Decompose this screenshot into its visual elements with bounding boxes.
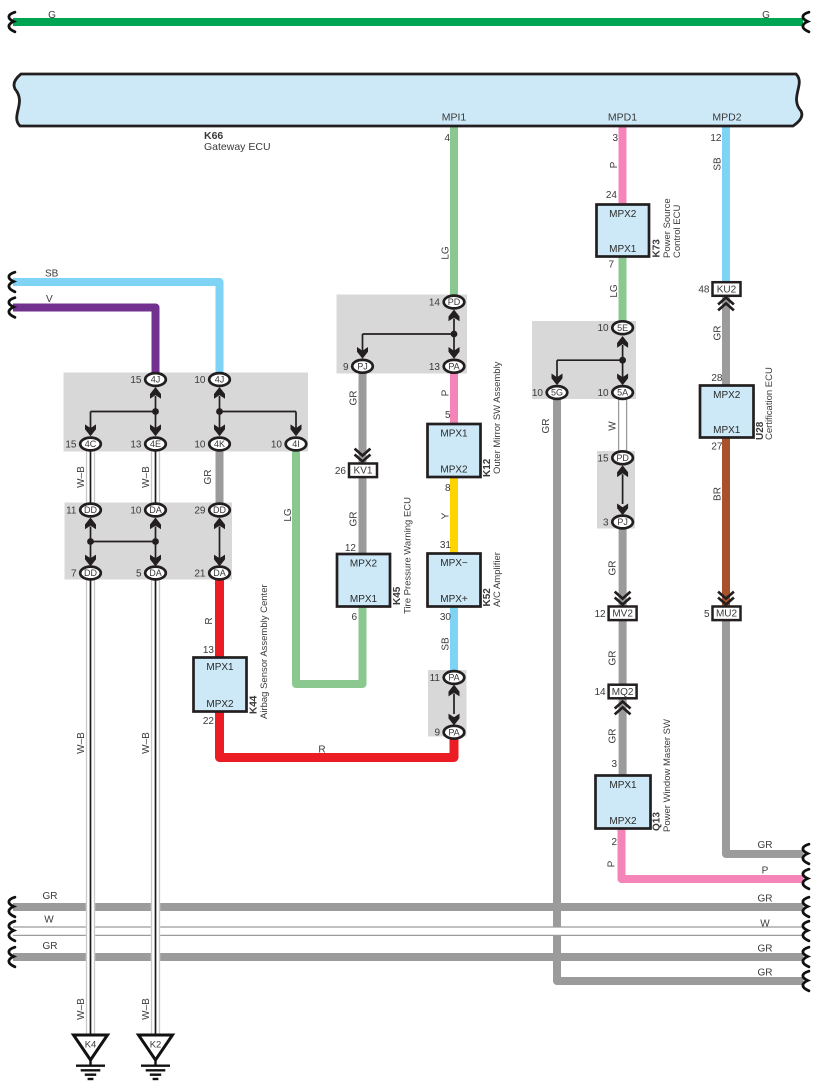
connector 13 PA <box>429 360 464 373</box>
connector 7 DD <box>71 567 101 580</box>
svg-text:K2: K2 <box>150 1040 162 1051</box>
svg-text:5: 5 <box>704 609 710 620</box>
arrows and branch 14 PD to PJ/PA <box>357 310 460 359</box>
wire SB left edge to 10 4J <box>13 282 220 374</box>
svg-text:10: 10 <box>597 323 609 334</box>
wire W-B 13 4E to 10 DA <box>151 450 160 504</box>
svg-text:5: 5 <box>136 569 142 580</box>
arrows 15 PD to 3 PJ <box>617 465 628 515</box>
svg-text:24: 24 <box>606 190 618 201</box>
break symbol GR lower right <box>803 947 809 967</box>
gateway ECU band K66 <box>14 74 802 126</box>
svg-text:12: 12 <box>345 543 357 554</box>
break symbol GR 5G right <box>803 971 809 991</box>
chevrons below MQ2 <box>615 702 631 715</box>
svg-text:KV1: KV1 <box>354 466 373 477</box>
svg-text:28: 28 <box>711 373 723 384</box>
svg-text:G: G <box>48 10 56 21</box>
connector 3 PJ <box>603 516 633 529</box>
connector 9 PA <box>434 726 464 739</box>
svg-text:P: P <box>762 866 769 877</box>
ECU K73 Power Source Control <box>597 205 650 257</box>
wire P 13 PA to K12 pin 5 <box>450 373 458 425</box>
svg-text:29: 29 <box>194 506 206 517</box>
svg-text:MPX1: MPX1 <box>609 780 637 791</box>
connector 14 MQ2 <box>594 685 636 699</box>
svg-text:15: 15 <box>65 440 77 451</box>
wire W-B 7 DD to ground K4 <box>86 579 95 1036</box>
svg-text:A/C Amplifier: A/C Amplifier <box>492 552 503 607</box>
svg-text:DA: DA <box>149 505 162 515</box>
svg-text:12: 12 <box>710 133 722 144</box>
connector 10 5A <box>597 386 632 399</box>
svg-text:W–B: W–B <box>141 732 152 754</box>
svg-text:MPD2: MPD2 <box>712 112 741 124</box>
svg-text:GR: GR <box>758 944 773 955</box>
chevrons into MU2 <box>718 592 734 605</box>
svg-text:DD: DD <box>84 568 97 578</box>
svg-text:GR: GR <box>608 729 619 744</box>
svg-text:3: 3 <box>612 133 618 144</box>
chevrons into KV1 <box>355 449 371 462</box>
break symbol GR lower left <box>9 947 15 967</box>
connector 5 MU2 <box>704 607 741 621</box>
svg-text:K4: K4 <box>85 1040 97 1051</box>
svg-text:MV2: MV2 <box>612 609 633 620</box>
svg-text:13: 13 <box>203 645 215 656</box>
svg-text:5A: 5A <box>617 388 628 398</box>
svg-text:9: 9 <box>434 728 440 739</box>
connector 9 PJ <box>343 360 373 373</box>
connector 15 4C <box>65 438 100 451</box>
svg-text:4: 4 <box>444 133 450 144</box>
wire GR MV2 to 14 MQ2 <box>619 620 627 686</box>
svg-text:31: 31 <box>440 540 452 551</box>
svg-text:MPD1: MPD1 <box>608 112 637 124</box>
svg-text:R: R <box>204 617 215 624</box>
wire SB MPD2 to 48 KU2 <box>722 124 730 283</box>
svg-text:V: V <box>46 294 53 305</box>
svg-text:SB: SB <box>713 157 724 171</box>
svg-text:MQ2: MQ2 <box>612 687 634 698</box>
svg-text:10: 10 <box>532 388 544 399</box>
wire W 10 5A to 15 PD <box>618 399 627 453</box>
svg-text:27: 27 <box>711 442 723 453</box>
connector 21 DA <box>194 567 229 580</box>
svg-text:K73: K73 <box>652 239 663 258</box>
junction panel PD/PJ pair <box>597 451 635 529</box>
ECU K52 A/C Amplifier <box>428 554 481 607</box>
svg-text:MPX−: MPX− <box>440 558 468 569</box>
wire GR 10 4K to 29 DD <box>216 450 224 504</box>
svg-text:GR: GR <box>349 391 360 406</box>
svg-text:DA: DA <box>213 568 226 578</box>
svg-text:MPX+: MPX+ <box>440 594 468 605</box>
connector 10 5E <box>597 321 632 334</box>
svg-text:W–B: W–B <box>76 998 87 1020</box>
svg-text:DD: DD <box>213 505 226 515</box>
svg-text:LG: LG <box>441 246 452 260</box>
svg-text:10: 10 <box>194 375 206 386</box>
svg-text:GR: GR <box>349 512 360 527</box>
connector 29 DD <box>194 504 229 517</box>
svg-text:12: 12 <box>594 609 606 620</box>
svg-text:4E: 4E <box>150 439 161 449</box>
junction panel 4J group <box>64 373 309 452</box>
break symbol W left <box>9 921 15 941</box>
wire GR MQ2 to Q13 pin 3 <box>619 698 627 776</box>
svg-text:G: G <box>762 10 770 21</box>
break symbol GR upper left <box>9 897 15 917</box>
arrows and branch 10 4J to 4K/4I <box>214 387 302 436</box>
wire LG 10 4I to K45 pin 6 <box>296 450 363 684</box>
svg-text:PD: PD <box>448 297 461 307</box>
svg-text:Outer Mirror SW Assembly: Outer Mirror SW Assembly <box>492 361 503 474</box>
svg-text:SB: SB <box>441 637 452 651</box>
svg-text:P: P <box>609 161 620 168</box>
connector 11 DD <box>66 504 101 517</box>
wire V left edge to 15 4J <box>13 308 156 375</box>
wire Y K12 pin 8 to K52 pin 31 <box>450 477 458 554</box>
connector 10 4J <box>194 373 229 386</box>
svg-text:Airbag Sensor Assembly Center: Airbag Sensor Assembly Center <box>259 584 270 719</box>
wire BR U28 pin 27 to 5 MU2 <box>722 437 730 607</box>
svg-text:MPX1: MPX1 <box>609 244 637 255</box>
connector 10 5G <box>532 386 567 399</box>
svg-text:GR: GR <box>713 326 724 341</box>
svg-text:Y: Y <box>441 512 452 519</box>
break symbol P right <box>803 869 809 889</box>
svg-text:7: 7 <box>608 260 614 271</box>
wire GR 9 PJ to 26 KV1 <box>359 373 367 464</box>
svg-text:GR: GR <box>541 419 552 434</box>
svg-text:GR: GR <box>758 894 773 905</box>
wire LG MPI1 to 14 PD <box>450 124 458 296</box>
junction panel PD/PJ/PA group <box>337 295 468 374</box>
svg-text:K44: K44 <box>249 695 260 714</box>
svg-text:W: W <box>608 421 619 431</box>
svg-text:13: 13 <box>429 362 441 373</box>
ground K4 <box>74 1035 108 1079</box>
svg-text:15: 15 <box>130 375 142 386</box>
junction panel PA/PA pair <box>428 670 467 737</box>
svg-text:GR: GR <box>43 891 58 902</box>
svg-text:PD: PD <box>616 453 629 463</box>
svg-text:P: P <box>441 389 452 396</box>
wire W-B 15 4C to 11 DD <box>86 450 95 504</box>
wire GR bus from 5G junction <box>557 399 804 982</box>
connector 48 KU2 <box>698 282 740 296</box>
wire P Q13 pin 2 to right edge <box>622 828 804 879</box>
break symbol G bus right <box>803 12 809 32</box>
wire GR bus lower <box>13 953 804 961</box>
svg-text:Control ECU: Control ECU <box>672 205 683 258</box>
svg-text:MPX1: MPX1 <box>713 425 741 436</box>
svg-text:LG: LG <box>609 284 620 298</box>
connector 14 PD <box>429 296 464 309</box>
connector 10 4I <box>271 438 306 451</box>
svg-text:W–B: W–B <box>141 466 152 488</box>
junction panel DD/DA group <box>65 503 233 580</box>
svg-text:3: 3 <box>603 518 609 529</box>
wire R K44 pin 22 to 9 PA <box>220 711 455 758</box>
svg-text:GR: GR <box>758 840 773 851</box>
svg-text:3: 3 <box>611 759 617 770</box>
wire W-B 5 DA to ground K2 <box>151 579 160 1036</box>
svg-text:MPX2: MPX2 <box>350 559 378 570</box>
svg-text:PA: PA <box>448 362 459 372</box>
svg-text:PJ: PJ <box>357 362 368 372</box>
svg-text:W: W <box>44 915 54 926</box>
svg-text:6: 6 <box>351 612 357 623</box>
wire R 21 DA to K44 pin 13 <box>215 579 224 658</box>
connector 26 KV1 <box>335 464 377 478</box>
ground K2 <box>139 1035 173 1079</box>
svg-text:9: 9 <box>343 362 349 373</box>
connector 11 PA <box>430 671 465 684</box>
svg-text:4I: 4I <box>292 439 300 449</box>
break symbol V left <box>9 298 15 318</box>
svg-text:5: 5 <box>445 410 451 421</box>
svg-text:R: R <box>318 745 325 756</box>
junction panel 5E/5G/5A group <box>532 321 636 399</box>
ECU Q13 Power Window Master SW <box>596 776 651 829</box>
svg-text:14: 14 <box>429 298 441 309</box>
svg-text:PA: PA <box>448 673 459 683</box>
svg-text:K45: K45 <box>392 586 403 605</box>
connector 15 4J <box>130 373 165 386</box>
ECU K12 Outer Mirror SW <box>428 424 481 477</box>
wire P MPD1 to K73 pin 24 <box>619 124 627 205</box>
ECU K45 Tire Pressure Warning <box>337 554 390 607</box>
connector 10 DA <box>130 504 165 517</box>
svg-text:DD: DD <box>84 505 97 515</box>
connector 12 MV2 <box>594 607 636 621</box>
svg-text:P: P <box>607 860 618 867</box>
wire W bus <box>13 927 804 935</box>
arrows and branch 15 4J to 4C/4E <box>85 387 161 436</box>
svg-text:4C: 4C <box>85 439 97 449</box>
svg-text:MPI1: MPI1 <box>442 112 467 124</box>
svg-text:14: 14 <box>594 687 606 698</box>
arrows and branch DD/DA pairs <box>85 518 161 567</box>
ECU K44 Airbag Sensor <box>194 658 247 712</box>
wire GR bus upper <box>13 903 804 911</box>
svg-text:W–B: W–B <box>76 466 87 488</box>
arrows and branch 10 5E to 5G/5A <box>552 336 629 385</box>
svg-text:GR: GR <box>758 968 773 979</box>
break symbol GR MU2 right <box>803 844 809 864</box>
svg-text:11: 11 <box>66 506 77 517</box>
svg-text:MPX2: MPX2 <box>609 209 637 220</box>
break symbol G bus left <box>9 12 15 32</box>
svg-text:PA: PA <box>448 727 459 737</box>
svg-text:Gateway ECU: Gateway ECU <box>204 141 271 153</box>
arrows 29 DD to 21 DA <box>214 518 225 567</box>
svg-text:48: 48 <box>698 285 710 296</box>
svg-text:MPX1: MPX1 <box>206 662 234 673</box>
svg-text:LG: LG <box>283 508 294 522</box>
svg-text:BR: BR <box>713 487 724 501</box>
svg-text:GR: GR <box>43 941 58 952</box>
connector 13 4E <box>130 438 165 451</box>
break symbol SB left <box>9 272 15 292</box>
connector 5 DA <box>136 567 166 580</box>
svg-text:5E: 5E <box>617 323 628 333</box>
wire GR KV1 to K45 pin 12 <box>359 477 367 555</box>
break symbol GR upper right <box>803 897 809 917</box>
svg-text:10: 10 <box>130 506 142 517</box>
svg-text:MPX2: MPX2 <box>713 390 741 401</box>
connector 10 4K <box>194 438 229 451</box>
wire GR MU2 to right edge <box>726 619 804 854</box>
svg-text:MPX1: MPX1 <box>350 594 378 605</box>
svg-text:30: 30 <box>440 612 452 623</box>
svg-text:7: 7 <box>71 569 77 580</box>
ground bus G <box>13 18 803 26</box>
svg-text:MPX2: MPX2 <box>206 699 234 710</box>
svg-text:W–B: W–B <box>141 998 152 1020</box>
svg-text:GR: GR <box>203 470 214 485</box>
ECU U28 Certification <box>700 386 754 438</box>
svg-text:5G: 5G <box>551 388 563 398</box>
svg-text:22: 22 <box>203 716 215 727</box>
svg-text:Q13: Q13 <box>652 812 663 831</box>
svg-text:11: 11 <box>430 673 441 684</box>
svg-text:Power Window Master SW: Power Window Master SW <box>662 719 673 832</box>
chevrons into MV2 <box>615 592 631 605</box>
wire GR KU2 to U28 pin 28 <box>722 296 730 387</box>
svg-text:13: 13 <box>130 440 142 451</box>
svg-text:4J: 4J <box>215 375 225 385</box>
svg-text:MPX2: MPX2 <box>609 816 637 827</box>
svg-text:GR: GR <box>608 561 619 576</box>
svg-text:26: 26 <box>335 466 347 477</box>
svg-text:Tire Pressure Warning ECU: Tire Pressure Warning ECU <box>403 497 414 614</box>
svg-text:W–B: W–B <box>76 732 87 754</box>
chevrons into KU2 <box>718 298 734 311</box>
svg-text:4K: 4K <box>214 439 225 449</box>
svg-text:MPX1: MPX1 <box>440 429 468 440</box>
svg-text:PJ: PJ <box>617 517 628 527</box>
connector 15 PD <box>597 451 632 464</box>
svg-text:10: 10 <box>271 440 283 451</box>
svg-text:W: W <box>760 919 770 930</box>
svg-text:Certification ECU: Certification ECU <box>764 367 775 440</box>
svg-text:10: 10 <box>597 388 609 399</box>
svg-text:GR: GR <box>608 651 619 666</box>
svg-text:DA: DA <box>149 568 162 578</box>
svg-text:KU2: KU2 <box>717 284 737 295</box>
svg-text:MU2: MU2 <box>716 609 738 620</box>
arrows 11 PA to 9 PA <box>449 685 460 726</box>
wire LG K73 pin 7 to 10 5E <box>619 256 627 322</box>
svg-text:SB: SB <box>45 269 59 280</box>
svg-text:4J: 4J <box>151 375 161 385</box>
wire SB K52 pin 30 to 11 PA <box>450 606 458 671</box>
svg-text:2: 2 <box>611 837 617 848</box>
svg-text:MPX2: MPX2 <box>440 465 468 476</box>
wire GR 3 PJ to 12 MV2 <box>619 529 627 608</box>
svg-text:10: 10 <box>194 440 206 451</box>
break symbol W right <box>803 921 809 941</box>
svg-text:8: 8 <box>445 483 451 494</box>
svg-text:15: 15 <box>597 453 609 464</box>
svg-text:21: 21 <box>194 569 206 580</box>
